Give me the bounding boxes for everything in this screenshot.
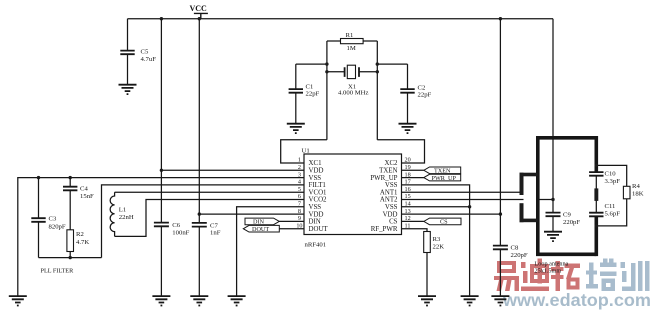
value label C3 <box>49 216 66 231</box>
wire C2 vertical <box>407 64 409 88</box>
capacitor C7 <box>192 223 207 227</box>
wire ANT2 node to C9 column <box>540 199 554 201</box>
svg-text:C2: C2 <box>418 85 426 92</box>
node junction dot ANT2 / C9 <box>551 198 554 201</box>
wire VDD pin13 to C8 column <box>402 213 501 215</box>
svg-text:www.edatop.com: www.edatop.com <box>502 290 651 310</box>
node junction dot rail / VCC stub <box>198 17 201 20</box>
ground below C8 <box>491 296 509 305</box>
value label R2 <box>76 231 89 246</box>
resistor R3 <box>424 232 431 253</box>
capacitor C11 (in antenna edge) <box>589 213 603 217</box>
node junction dot R2 / rail <box>69 256 72 259</box>
svg-text:TXEN: TXEN <box>379 168 397 175</box>
node DIN port flag <box>245 218 279 226</box>
wire TXEN stub <box>402 169 424 171</box>
svg-text:Loop antenna: Loop antenna <box>535 261 569 268</box>
value label C11 <box>605 203 621 218</box>
wire R1 top link <box>327 40 377 42</box>
svg-text:U1: U1 <box>302 147 310 154</box>
wire R4 bottom link <box>596 199 626 226</box>
wire VCO1 pin5 to L1 <box>115 191 304 193</box>
node PWR_UP port flag <box>424 174 461 182</box>
svg-text:22nH: 22nH <box>119 214 134 221</box>
wire XC1 link crystal to pin 1 <box>281 140 327 163</box>
wire VSS pin14 join <box>402 206 470 208</box>
value label U1 <box>302 147 310 154</box>
svg-text:18K: 18K <box>632 191 644 198</box>
node junction dot VSS3 / C4 <box>69 176 72 179</box>
wire C4 vertical upper <box>69 178 71 187</box>
antenna loop rectangle (thick) <box>538 138 597 255</box>
ground below C6 <box>152 296 170 305</box>
wire edge between C10 and C11 <box>595 176 597 212</box>
wire C8 column from rail <box>499 19 501 245</box>
wire C6 column from rail <box>160 19 162 222</box>
svg-text:ANT2: ANT2 <box>380 197 398 204</box>
ground below C9 <box>544 232 562 241</box>
svg-text:DOUT: DOUT <box>252 226 269 233</box>
node junction dot VSS14 / column <box>468 205 471 208</box>
wire C8 to ground <box>499 250 501 296</box>
wire CS stub <box>402 220 424 222</box>
op-amp U1 nRF401 IC body <box>304 154 402 235</box>
ground far left <box>9 296 27 305</box>
node junction dot rail / C8 column <box>499 17 502 20</box>
svg-text:C8: C8 <box>511 245 519 252</box>
value label C10 <box>605 171 621 186</box>
wire loop-filter bottom rail <box>39 257 102 259</box>
pin names U1 right column <box>370 160 398 233</box>
node VCC power symbol <box>190 4 208 19</box>
svg-text:C4: C4 <box>80 186 88 193</box>
node junction dot VSS3 / C3 <box>37 176 40 179</box>
wire C4 to R2 <box>69 191 71 230</box>
wire C7 column from rail <box>198 19 200 223</box>
svg-text:nRF401: nRF401 <box>305 242 327 249</box>
svg-text:4.7uF: 4.7uF <box>141 56 157 63</box>
wire crystal X1 leads <box>327 71 377 73</box>
svg-text:DIN: DIN <box>253 219 265 226</box>
ground below C5 <box>119 85 137 94</box>
node junction dot VDD2 / C6 column <box>160 169 163 172</box>
node junction dot R4 bottom <box>595 224 598 227</box>
svg-text:DIN: DIN <box>309 219 321 226</box>
pin numbers 1-10 <box>296 157 302 230</box>
wire RF_PWR pin11 to R3 <box>402 229 428 232</box>
svg-text:CS: CS <box>389 219 398 226</box>
svg-text:FILT1: FILT1 <box>309 182 327 189</box>
node junction dot crystal right <box>376 70 379 73</box>
svg-text:C1: C1 <box>306 84 314 91</box>
ground below C2 <box>399 124 417 133</box>
node CS port flag <box>424 218 461 226</box>
wire C1 to ground <box>295 93 297 123</box>
svg-text:L1: L1 <box>119 207 126 214</box>
svg-text:220pF: 220pF <box>511 252 528 259</box>
node junction dot VDD8 / C7 column <box>198 212 201 215</box>
svg-text:R3: R3 <box>433 236 441 243</box>
wire C7 to ground <box>198 227 200 295</box>
svg-text:15nF: 15nF <box>80 193 94 200</box>
inductor L1 <box>110 192 114 236</box>
svg-text:820pF: 820pF <box>49 224 66 231</box>
pin names U1 left column <box>309 160 329 233</box>
svg-text:RF_PWR: RF_PWR <box>371 226 398 233</box>
wire VSS pin3 rail to far left <box>18 178 304 296</box>
svg-text:CS: CS <box>440 219 448 226</box>
svg-text:XC1: XC1 <box>309 160 323 167</box>
svg-text:VSS: VSS <box>385 204 398 211</box>
value label C2 <box>418 85 432 99</box>
value label PLL FILTER <box>41 268 75 275</box>
svg-text:4.7K: 4.7K <box>76 239 89 246</box>
crystal X1 <box>345 65 359 78</box>
node junction dot VDD13 / C8 column <box>499 212 502 215</box>
node junction dot crystal left <box>325 70 328 73</box>
svg-text:20: 20 <box>405 157 411 164</box>
capacitor C9 <box>546 213 561 217</box>
value label X1 <box>338 83 368 96</box>
capacitor C8 <box>493 246 508 250</box>
node junction dot R4 top <box>595 164 598 167</box>
wire C1 branch <box>296 63 327 65</box>
value label Loop antenna <box>535 261 569 275</box>
value label R3 <box>433 236 445 251</box>
node junction dot right vertical upper <box>376 62 379 65</box>
svg-text:PWR_UP: PWR_UP <box>370 175 397 182</box>
svg-text:VDD: VDD <box>383 211 398 218</box>
wire C3 vertical lower <box>38 222 40 257</box>
value label C8 <box>511 245 528 260</box>
svg-text:C9: C9 <box>563 212 571 219</box>
antenna edge thick segment between C10 and C11 <box>594 188 598 201</box>
capacitor C6 <box>154 223 169 227</box>
wire XC2 link crystal to pin 20 <box>377 140 424 163</box>
ground below VSS column <box>461 296 479 305</box>
wire FILT1 pin4 loop <box>102 185 305 258</box>
watermark chinese characters 易迪拓培训 <box>494 259 650 292</box>
svg-text:1M: 1M <box>347 45 356 52</box>
svg-text:VDD: VDD <box>309 168 324 175</box>
svg-text:VCC: VCC <box>190 4 208 13</box>
capacitor C2 <box>400 89 414 93</box>
wire R2 to loop-filter rail <box>69 252 71 258</box>
svg-text:R4: R4 <box>632 183 640 190</box>
svg-text:4.000 MHz: 4.000 MHz <box>338 90 368 97</box>
wire R3 to ground <box>426 253 428 296</box>
antenna feed bracket (thick) <box>520 173 538 223</box>
svg-text:R1: R1 <box>346 32 354 39</box>
capacitor C4 <box>63 187 77 191</box>
svg-text:VCO2: VCO2 <box>309 197 328 204</box>
node DOUT port flag <box>243 225 279 233</box>
capacitor C10 (in antenna edge) <box>589 172 603 176</box>
wire C9 to ground <box>552 217 554 231</box>
node junction dot left vertical upper <box>325 62 328 65</box>
svg-text:22pF: 22pF <box>418 92 432 99</box>
node TXEN port flag <box>424 167 461 175</box>
svg-text:VSS: VSS <box>385 182 398 189</box>
capacitor C1 <box>289 89 303 93</box>
value label C4 <box>80 186 94 201</box>
svg-text:25x1.5mm: 25x1.5mm <box>535 268 562 275</box>
wire crystal left vertical <box>326 41 328 140</box>
svg-text:VCO1: VCO1 <box>309 189 328 196</box>
wire VSS pin7 to ground column <box>237 207 304 296</box>
value label L1 <box>119 207 134 221</box>
wire PWR_UP stub <box>402 177 424 179</box>
svg-text:C5: C5 <box>141 49 149 56</box>
svg-text:5.6pF: 5.6pF <box>605 211 621 218</box>
wire DIN stub <box>279 220 304 222</box>
ground below VSS7 column <box>228 296 246 305</box>
resistor R2 <box>67 230 74 252</box>
svg-text:VSS: VSS <box>309 204 322 211</box>
wire C2 branch <box>377 63 407 65</box>
svg-text:C6: C6 <box>172 222 180 229</box>
svg-text:PWR_UP: PWR_UP <box>432 175 457 182</box>
svg-text:C11: C11 <box>605 203 616 210</box>
svg-text:VDD: VDD <box>309 211 324 218</box>
wire C6 to ground <box>160 227 162 296</box>
svg-text:XC2: XC2 <box>384 160 398 167</box>
capacitor C5 <box>120 51 134 55</box>
svg-text:3.3pF: 3.3pF <box>605 178 621 185</box>
svg-text:1nF: 1nF <box>210 230 221 237</box>
wire VDD pin2 to C6 column <box>161 169 304 171</box>
ground below C1 <box>287 124 305 133</box>
wire crystal right vertical <box>376 41 378 140</box>
wire C1 vertical <box>295 64 297 88</box>
capacitor C3 <box>31 218 45 222</box>
svg-text:22K: 22K <box>433 244 445 251</box>
value label nRF401 <box>305 242 327 249</box>
wire ANT1 pin16 to antenna feed <box>402 191 521 193</box>
svg-text:C3: C3 <box>49 216 57 223</box>
value label C9 <box>563 212 580 227</box>
wire ANT2 pin15 to antenna feed gap <box>402 199 524 201</box>
wire C2 to ground <box>407 93 409 123</box>
wire C3 vertical upper <box>38 178 40 218</box>
svg-text:TXEN: TXEN <box>434 168 451 175</box>
value label R4 <box>632 183 644 198</box>
wire VDD pin8 to C7 column <box>199 213 304 215</box>
resistor R4 <box>623 186 630 199</box>
ground below R3 <box>418 296 436 305</box>
wire VCC top rail <box>128 18 554 20</box>
value label C5 <box>141 49 157 64</box>
value label C6 <box>172 222 189 236</box>
svg-text:DOUT: DOUT <box>309 226 329 233</box>
svg-text:PLL FILTER: PLL FILTER <box>41 268 75 275</box>
node junction dot rail / C6 column <box>160 17 163 20</box>
wire VCC rail end down to antenna / C9 <box>552 19 554 212</box>
value label R1 <box>346 32 356 52</box>
pin numbers 20-11 <box>405 157 411 230</box>
svg-text:C10: C10 <box>605 171 617 178</box>
value label C1 <box>306 84 320 98</box>
svg-text:220pF: 220pF <box>563 219 580 226</box>
wire VSS pin17 to right ground column <box>402 185 470 296</box>
svg-text:1: 1 <box>298 157 301 164</box>
ground below C7 <box>190 296 208 305</box>
wire R4 top link <box>596 165 626 186</box>
antenna right edge upper (thick) <box>594 136 598 172</box>
svg-text:ANT1: ANT1 <box>380 189 398 196</box>
svg-text:22pF: 22pF <box>306 91 320 98</box>
svg-text:100nF: 100nF <box>172 230 189 237</box>
svg-text:R2: R2 <box>76 231 84 238</box>
wire DOUT stub <box>279 228 304 230</box>
wire C5 branch from rail left end <box>127 19 129 50</box>
svg-text:VSS: VSS <box>309 175 322 182</box>
value label C7 <box>210 223 221 237</box>
wire VCO2 pin6 to L1 bottom <box>115 200 304 237</box>
wire C5 to ground <box>127 55 129 84</box>
antenna right edge lower (thick) <box>594 217 598 256</box>
svg-text:C7: C7 <box>210 223 218 230</box>
resistor R1 <box>341 39 364 44</box>
